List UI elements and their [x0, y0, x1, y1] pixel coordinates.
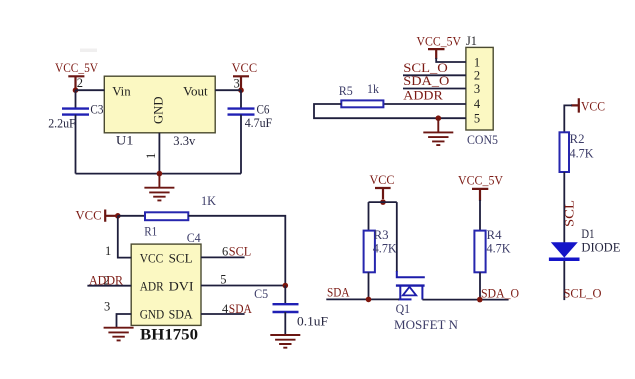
- svg-text:0.1uF: 0.1uF: [297, 315, 328, 329]
- svg-text:5: 5: [474, 111, 480, 125]
- wire pin 3 SDA_O: [403, 88, 466, 90]
- wire dot to Vin: [76, 89, 105, 91]
- wire pin 4 SDA: [201, 313, 245, 315]
- resistor R3: [364, 231, 375, 273]
- resistor R1: [145, 212, 188, 220]
- wire C5 down to ground: [284, 312, 286, 335]
- svg-text:VCC: VCC: [140, 250, 164, 265]
- diode D1 cathode bar: [549, 257, 580, 261]
- transistor Q1 source lead: [399, 286, 401, 300]
- node junction dot (VCC / R3 / gate): [380, 199, 386, 205]
- svg-text:C5: C5: [254, 287, 268, 301]
- svg-text:1K: 1K: [201, 194, 216, 208]
- wire dot down to C3: [75, 90, 77, 108]
- wire dot to R1: [118, 215, 145, 217]
- svg-text:1: 1: [144, 153, 158, 159]
- svg-text:SCL_O: SCL_O: [564, 287, 602, 301]
- svg-text:DIODE: DIODE: [581, 241, 620, 255]
- node junction dot (SDA / R3): [366, 297, 372, 303]
- power symbol VCC (vertical bar): [571, 98, 579, 112]
- IC BH1750 body: [131, 244, 201, 325]
- connector J1 body: [466, 47, 493, 130]
- wire VCC node horizontal: [369, 201, 397, 203]
- svg-text:2.2uF: 2.2uF: [48, 117, 76, 131]
- svg-text:Vin: Vin: [112, 84, 131, 99]
- svg-text:3: 3: [474, 82, 480, 96]
- wire pin 3 to ground: [117, 314, 132, 327]
- wire VCC dot down then to pin 1: [118, 216, 131, 258]
- svg-text:VCC_5V: VCC_5V: [458, 174, 503, 188]
- node junction dot (VCC / Vout / C6): [238, 87, 244, 93]
- wire R5 left loop down to pin 5: [314, 104, 466, 118]
- wire dot down to C5: [284, 286, 286, 305]
- svg-text:SDA: SDA: [169, 307, 194, 322]
- svg-text:Vout: Vout: [183, 84, 208, 99]
- svg-text:SDA_O: SDA_O: [481, 286, 519, 300]
- resistor R5: [341, 100, 383, 107]
- resistor R4: [474, 231, 485, 273]
- svg-text:MOSFET N: MOSFET N: [394, 318, 458, 332]
- op-amp U1 body: [104, 76, 215, 133]
- svg-text:R2: R2: [570, 132, 585, 146]
- wire drain to SDA_O: [422, 299, 508, 301]
- node junction dot (pin1 / rail / ground): [157, 171, 163, 177]
- wire power down to R4: [479, 200, 481, 231]
- svg-text:2: 2: [474, 69, 480, 83]
- svg-text:6: 6: [222, 244, 228, 258]
- svg-text:3: 3: [104, 300, 110, 314]
- wire R1 right then down to DVI: [188, 216, 285, 286]
- wire C6 down to bottom rail: [240, 115, 242, 174]
- svg-text:VCC_5V: VCC_5V: [417, 34, 462, 48]
- svg-text:R3: R3: [374, 228, 389, 242]
- capacitor C5: [273, 304, 299, 312]
- svg-text:C6: C6: [257, 103, 270, 117]
- power symbol VCC (left bar): [105, 210, 115, 222]
- svg-text:ADDR: ADDR: [403, 89, 443, 103]
- wire Vout to dot: [215, 89, 241, 91]
- svg-text:4.7K: 4.7K: [373, 242, 397, 256]
- node junction dot (SDA_O / R4): [477, 297, 483, 303]
- wire bottom rail: [76, 173, 242, 175]
- transistor Q1 body arrow: [403, 287, 416, 296]
- node junction dot (pin 5 / ground): [436, 115, 442, 121]
- svg-text:Q1: Q1: [396, 302, 411, 316]
- svg-text:VCC: VCC: [232, 61, 258, 75]
- svg-text:1: 1: [474, 55, 480, 69]
- wire down to R3: [368, 202, 370, 231]
- wire C3 down to bottom rail: [75, 115, 77, 174]
- transistor Q1 channel: [396, 284, 425, 286]
- svg-text:1: 1: [105, 244, 111, 258]
- wire R4 down to SDA_O: [479, 272, 481, 299]
- wire dot down to C6: [240, 90, 242, 108]
- ground (below C5): [270, 335, 300, 348]
- power symbol VCC (bar): [233, 76, 249, 88]
- capacitor C6: [228, 109, 255, 115]
- svg-text:4.7uF: 4.7uF: [245, 116, 273, 130]
- svg-text:D1: D1: [581, 227, 594, 241]
- node junction dot (VCC / R1 / pin1): [115, 213, 121, 219]
- svg-text:2: 2: [77, 76, 83, 90]
- svg-text:VCC: VCC: [76, 209, 102, 223]
- power symbol VCC (bar): [375, 188, 391, 199]
- node junction dot (VCC_5V / Vin / C3): [73, 87, 79, 93]
- ground (below U1): [144, 174, 174, 201]
- svg-text:4.7K: 4.7K: [570, 147, 594, 161]
- svg-text:C4: C4: [187, 231, 202, 245]
- svg-text:BH1750: BH1750: [140, 327, 198, 344]
- transistor Q1 source stub: [398, 298, 412, 300]
- wire power to column: [564, 105, 572, 132]
- faint smudge artifact: [80, 49, 97, 53]
- svg-text:4: 4: [474, 97, 481, 111]
- diode D1 anode triangle: [551, 242, 578, 257]
- svg-text:CON5: CON5: [467, 133, 498, 147]
- wire R2 down to D1: [563, 172, 565, 243]
- wire pin 6 SCL: [201, 256, 245, 258]
- svg-text:VCC: VCC: [581, 100, 605, 114]
- power symbol VCC_5V (bar): [472, 189, 488, 201]
- svg-text:GND: GND: [151, 97, 166, 125]
- power symbol VCC_5V (bar): [68, 76, 84, 88]
- wire gate vertical: [396, 202, 398, 272]
- svg-text:4.7K: 4.7K: [487, 242, 511, 256]
- svg-text:VCC_5V: VCC_5V: [55, 61, 98, 75]
- svg-text:SCL_O: SCL_O: [403, 61, 448, 75]
- svg-text:J1: J1: [466, 34, 477, 48]
- svg-text:SCL: SCL: [169, 250, 193, 265]
- svg-text:C3: C3: [90, 103, 103, 117]
- wire R3 down to SDA: [368, 272, 370, 299]
- wire SDA: [326, 298, 399, 300]
- svg-text:R5: R5: [339, 84, 353, 98]
- wire ADDR to pin 2: [87, 285, 131, 287]
- transistor Q1 drain lead: [421, 286, 423, 300]
- svg-text:SCL: SCL: [563, 200, 577, 227]
- svg-text:SDA: SDA: [327, 286, 350, 300]
- svg-text:SCL: SCL: [229, 244, 252, 258]
- wire R5 to pin 4: [383, 103, 466, 105]
- svg-text:R4: R4: [487, 228, 503, 242]
- wire pin 5 DVI: [201, 285, 285, 287]
- svg-text:3: 3: [234, 77, 240, 91]
- ground (BH1750 pin 3): [104, 328, 134, 341]
- svg-text:R1: R1: [144, 225, 157, 239]
- svg-text:5: 5: [220, 272, 226, 286]
- resistor R2: [560, 132, 570, 172]
- svg-text:DVI: DVI: [169, 279, 194, 294]
- svg-text:1k: 1k: [367, 82, 380, 96]
- capacitor C3: [62, 109, 89, 115]
- svg-text:U1: U1: [116, 134, 133, 148]
- svg-text:VCC: VCC: [370, 173, 395, 187]
- ground (J1 pin 5): [423, 118, 453, 145]
- svg-text:ADR: ADR: [140, 279, 164, 294]
- wire U1 pin1 down: [158, 133, 160, 174]
- wire power to pin 1: [436, 58, 466, 62]
- svg-text:3.3v: 3.3v: [173, 134, 196, 148]
- transistor Q1 gate: [397, 271, 425, 277]
- svg-text:SDA_O: SDA_O: [403, 74, 449, 88]
- svg-text:GND: GND: [140, 307, 165, 322]
- power symbol VCC_5V (bar): [428, 49, 445, 59]
- wire pin 2 SCL_O: [403, 74, 466, 76]
- node junction dot (DVI / R1 / C5): [283, 283, 289, 289]
- wire D1 down to SCL_O: [563, 261, 565, 300]
